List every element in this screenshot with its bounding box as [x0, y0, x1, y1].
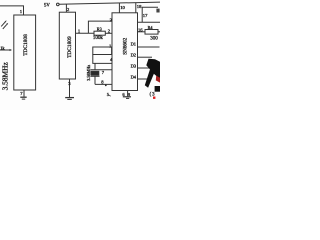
svg-text:17: 17	[143, 13, 148, 18]
svg-text:10: 10	[120, 5, 125, 10]
svg-text:1: 1	[20, 9, 23, 14]
svg-text:3.58MHz: 3.58MHz	[86, 65, 91, 81]
svg-text:7: 7	[102, 70, 105, 75]
svg-text:5V: 5V	[44, 3, 50, 8]
svg-text:300: 300	[150, 36, 158, 41]
svg-text:D1: D1	[131, 42, 136, 47]
svg-text:16: 16	[138, 28, 143, 33]
svg-text:7: 7	[20, 91, 23, 96]
svg-text:5、: 5、	[107, 92, 114, 97]
svg-text:1: 1	[78, 28, 81, 33]
svg-text:18: 18	[137, 4, 142, 9]
svg-text:D4: D4	[131, 74, 137, 79]
svg-text:D3: D3	[131, 64, 137, 69]
svg-text:2: 2	[108, 28, 111, 33]
svg-text:4: 4	[110, 57, 113, 62]
svg-text:TDC1809: TDC1809	[67, 36, 73, 58]
svg-text:2: 2	[67, 7, 70, 12]
svg-text:(3: (3	[150, 92, 156, 97]
svg-text:R3: R3	[97, 26, 102, 31]
svg-text:3: 3	[68, 81, 71, 86]
svg-text:100k: 100k	[93, 36, 104, 41]
svg-text:TDC1808: TDC1808	[23, 34, 29, 56]
svg-text:D2: D2	[131, 53, 136, 58]
svg-text:3.58MHz: 3.58MHz	[1, 62, 10, 91]
svg-text:8: 8	[101, 79, 104, 84]
svg-text:SN8602: SN8602	[123, 37, 129, 54]
